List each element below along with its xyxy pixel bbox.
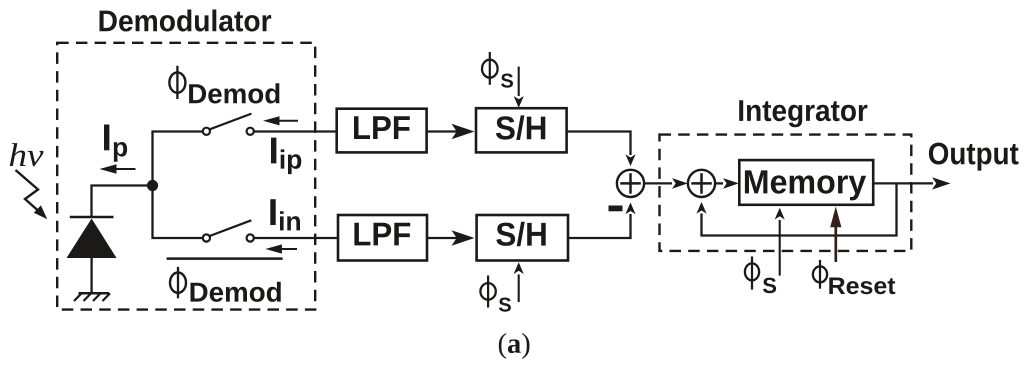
wire SH2 to summer 1 (568, 203, 636, 239)
clock arrow phi S into SH1 (514, 67, 524, 108)
node A junction dot (147, 180, 158, 191)
label phi S integrator (745, 256, 776, 293)
label phi S bottom (480, 276, 511, 312)
wire node A to switch S1 (153, 132, 203, 187)
wire node A to switch S2 (153, 185, 203, 238)
photodiode D1 (67, 217, 117, 293)
Memory box (739, 160, 873, 205)
switch S2 phi Demod bar (203, 220, 254, 241)
label hv photon (10, 143, 44, 166)
label Integrator (739, 100, 867, 127)
wire SH1 to summer 1 (567, 132, 636, 167)
wire S2 to LPF2 (254, 237, 338, 239)
LPF box 2 (338, 215, 427, 261)
S/H box 1 (476, 108, 567, 152)
output wire (873, 177, 950, 189)
summer 1 (617, 170, 644, 197)
label phi Reset (813, 260, 895, 294)
minus sign (609, 206, 623, 212)
wire photodiode to node A (92, 186, 153, 219)
feedback wire (696, 183, 896, 235)
demodulator dashed box (57, 43, 315, 310)
label phi Demod top (169, 66, 279, 104)
photon arrow (16, 170, 48, 219)
current arrow Ip (100, 164, 136, 173)
caption a (499, 333, 530, 359)
clock arrow phi S into SH2 (514, 262, 524, 302)
label Output (929, 143, 1019, 171)
current arrow into S2 (265, 244, 297, 253)
label phi Demod bar bottom (167, 259, 283, 302)
label Iin (270, 199, 300, 230)
arrow LPF2 to SH2 (427, 230, 475, 245)
switch S1 phi Demod (203, 114, 254, 135)
arrow summer2 to Memory (715, 178, 739, 189)
label phi S top (482, 52, 513, 88)
summer 2 (688, 170, 715, 197)
current arrow into S1 (263, 116, 298, 125)
label Ip (104, 125, 127, 162)
integrator dashed box (660, 135, 912, 251)
wire summer1 to summer2 (644, 178, 688, 189)
arrow LPF1 to SH1 (427, 124, 475, 139)
wire S1 to LPF1 (254, 130, 337, 132)
clock arrow phi S into Memory (775, 208, 785, 276)
reset arrow phi Reset into Memory (830, 207, 841, 263)
ground (74, 293, 110, 301)
label Iip (271, 138, 301, 175)
LPF box 1 (337, 109, 427, 153)
S/H box 2 (477, 215, 568, 261)
label Demodulator (100, 10, 272, 32)
